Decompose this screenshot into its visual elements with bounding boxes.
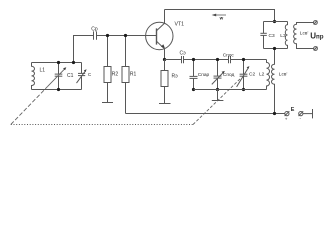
wire: emitter rail Ce to Cpos [184, 59, 229, 61]
chassis bar [312, 109, 314, 118]
input tank: top wire [32, 62, 82, 64]
resistor Re [161, 60, 168, 104]
node C2 bottom [242, 88, 245, 91]
gang line: dotted horizontal [11, 124, 193, 126]
svg-text:Cпар: Cпар [198, 72, 210, 78]
wire: R2 bottom lead [107, 83, 109, 103]
inductor Lsv heterodyne coupling [272, 49, 275, 114]
transistor VT1 [146, 22, 173, 49]
ground under R2 [102, 102, 113, 104]
svg-text:Cпод: Cпод [223, 72, 235, 78]
wire: base rail right segment [97, 35, 157, 37]
resistor R2 [104, 67, 111, 83]
gang line: C1 arrow / left linkage diagonal [11, 67, 67, 124]
capacitor Cpod (variable) [212, 60, 225, 90]
svg-text:Cp: Cp [91, 27, 98, 33]
svg-text:L2: L2 [259, 72, 265, 78]
svg-text:C1: C1 [67, 73, 74, 79]
wire: collector top rail [165, 10, 275, 22]
capacitor C1 (variable) [55, 63, 63, 90]
terminal +E [285, 111, 290, 116]
resistor R1 [122, 67, 129, 83]
wire: R1 top lead [125, 36, 127, 67]
gang line: right linkage diagonal dashed [193, 78, 241, 125]
wire: emitter rail to Ce [165, 59, 182, 61]
node IF tank feed bottom [273, 47, 276, 50]
wire: R2 top lead [107, 36, 109, 67]
svg-text:Cэ: Cэ [180, 51, 187, 57]
antenna arrow w [212, 14, 226, 17]
node Cpar top [192, 58, 195, 61]
node Cpod bottom [216, 88, 219, 91]
node Cpar bottom [192, 88, 195, 91]
node tank feed [72, 61, 75, 64]
node C2 top [242, 58, 245, 61]
node C1 bottom [57, 88, 60, 91]
svg-text:Uпр: Uпр [310, 32, 324, 41]
svg-text:E: E [291, 107, 295, 113]
node C1 top [57, 61, 60, 64]
capacitor C3 [260, 22, 266, 49]
inductor Lsv output [294, 23, 314, 49]
wire: base rail left corner segment [74, 36, 94, 63]
supply rail [126, 113, 285, 115]
IF tank bottom wire [264, 48, 288, 50]
node IF tank feed top [273, 20, 276, 23]
node R2 top [106, 34, 109, 37]
terminal minus [299, 111, 304, 116]
inductor L2 [267, 60, 270, 90]
wire: collector vertical [164, 10, 166, 24]
node R1 top [124, 34, 127, 37]
ground under Re [159, 103, 171, 105]
svg-text:Lсв’: Lсв’ [279, 72, 288, 78]
capacitor Ce [182, 56, 184, 63]
svg-text:C3: C3 [269, 33, 275, 39]
wire: minus terminal to chassis bar [303, 113, 313, 115]
terminal output top [314, 21, 318, 25]
wire: rail Cpos to L2 corner [231, 59, 267, 61]
capacitor Cp [94, 31, 97, 39]
svg-text:C2: C2 [249, 72, 255, 78]
inductor L3 [285, 22, 287, 49]
heterodyne tank bottom wire [194, 89, 267, 91]
capacitor Cpos [229, 56, 231, 63]
IF tank top wire [264, 21, 288, 23]
node rail Lsv [273, 112, 276, 115]
node emitter junction [163, 58, 166, 61]
svg-text:Rэ: Rэ [172, 73, 179, 79]
terminal output bottom [314, 47, 318, 51]
capacitor Cpar [190, 60, 198, 90]
svg-text:C: C [88, 72, 92, 77]
svg-text:VT1: VT1 [175, 22, 185, 28]
svg-text:-: - [300, 116, 302, 121]
svg-text:Cпос: Cпос [223, 52, 235, 58]
input tank: bottom wire [32, 89, 82, 91]
svg-text:L3: L3 [280, 33, 286, 39]
svg-text:+: + [285, 117, 288, 122]
capacitor C trimmer (variable) [77, 63, 87, 90]
gang line: C2 arrow [237, 66, 250, 87]
svg-text:R2: R2 [112, 72, 119, 78]
inductor L1 [32, 63, 35, 90]
wire: Cpod ground stub [217, 90, 219, 101]
wire: R1 bottom lead to supply rail [125, 83, 127, 114]
svg-text:L1: L1 [40, 67, 46, 73]
wire: emitter vertical [164, 49, 166, 60]
svg-text:Lсв’: Lсв’ [300, 30, 309, 36]
ground under Cpod [212, 100, 224, 102]
svg-text:R1: R1 [130, 72, 137, 78]
svg-text:w: w [219, 16, 224, 21]
node Cpod top [216, 58, 219, 61]
capacitor C2 (variable) [240, 60, 248, 90]
